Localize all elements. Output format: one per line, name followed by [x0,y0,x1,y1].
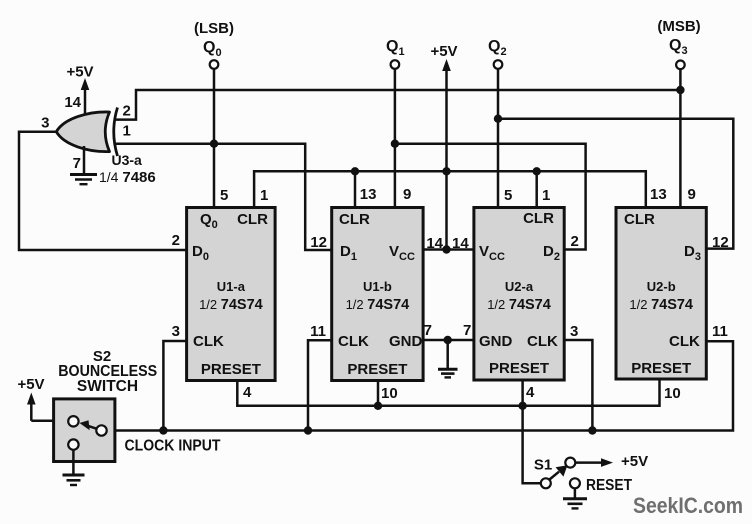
svg-text:13: 13 [650,186,667,203]
svg-text:GND: GND [389,333,423,350]
flip-flop U1-b box [332,208,423,381]
svg-text:RESET: RESET [586,477,632,494]
wire Q1 to D2 [395,144,586,250]
svg-text:CLR: CLR [624,211,655,228]
svg-text:PRESET: PRESET [201,361,261,378]
junction preset/pin4 U2-a [518,402,526,410]
wire XOR pin1 right through Q0 down to D1 [116,144,332,250]
wire RESET to ground [574,489,577,499]
svg-text:1: 1 [123,123,131,140]
wire S2 contact C to ground [72,450,75,475]
junction preset/pin10 U1-b [374,402,382,410]
svg-text:1: 1 [542,187,550,204]
svg-text:4: 4 [526,384,535,401]
svg-text:SWITCH: SWITCH [77,378,138,395]
switch S1 arm arrow [550,465,568,479]
svg-text:CLOCK INPUT: CLOCK INPUT [125,438,221,455]
terminal Q0 [210,60,219,69]
svg-text:5: 5 [220,187,228,204]
svg-text:U2-b: U2-b [647,279,676,294]
svg-text:S1: S1 [534,457,552,474]
svg-text:11: 11 [712,323,728,340]
svg-text:1/2 74S74: 1/2 74S74 [346,297,410,313]
svg-text:GND: GND [479,333,513,350]
svg-text:3: 3 [570,323,578,340]
wire GND drop [446,340,449,369]
wire PRESET pin10 U1-b [377,381,380,406]
svg-text:9: 9 [403,186,411,203]
switch S2 arm arrow [80,420,97,430]
svg-text:+5V: +5V [430,43,457,60]
junction +5V/CLR rail [442,167,450,175]
svg-text:PRESET: PRESET [347,361,407,378]
switch S2 box [54,399,115,462]
svg-text:7: 7 [463,322,471,339]
svg-text:1/2 74S74: 1/2 74S74 [199,297,263,313]
wire Q0 vertical [213,69,216,208]
junction clock/U1-a CLK [159,426,167,434]
wire Q1 vertical [394,69,397,208]
terminal Q3 [676,61,685,70]
junction GND node [444,336,452,344]
svg-text:(MSB): (MSB) [657,18,700,35]
wire clock line to U2-b CLK pin11 [107,341,733,430]
svg-text:U1-a: U1-a [217,279,246,294]
svg-text:1: 1 [260,187,268,204]
terminal Q1 [391,60,400,69]
wire Q2 vertical [497,69,500,208]
junction CLR13 U1-b [351,167,359,175]
svg-text:5: 5 [504,187,512,204]
wire CLR rail +5V [254,171,646,207]
ground under S2 [63,475,85,485]
flip-flop U1-a box [187,208,276,381]
svg-text:+5V: +5V [621,453,648,470]
svg-text:SeekIC.com: SeekIC.com [633,493,743,518]
junction Q0/pin1 [210,140,218,148]
junction Q3/top rail [676,86,684,94]
wire XOR pin3 output down to D0 [19,132,187,250]
ground between U1-b and U2-a [438,369,458,377]
junction clock/U2-a CLK [588,426,596,434]
svg-text:2: 2 [123,103,131,120]
wire CLR pin1 U2-a [535,171,538,207]
ground RESET [563,499,587,509]
wire VCC stubs pin14 [423,248,474,251]
svg-text:4: 4 [243,384,252,401]
wire U1-b CLK pin11 [308,340,332,430]
svg-text:7: 7 [424,322,432,339]
svg-text:1/2 74S74: 1/2 74S74 [487,297,551,313]
svg-text:3: 3 [172,323,180,340]
svg-text:10: 10 [664,385,681,402]
switch S2 contact C [68,439,78,449]
terminal Q2 [494,60,503,69]
svg-text:(LSB): (LSB) [194,20,234,37]
svg-text:CLK: CLK [338,333,369,350]
op-amp : XOR gate U3-a body [56,112,109,152]
svg-text:PRESET: PRESET [489,360,549,377]
svg-text:CLK: CLK [193,333,224,350]
svg-text:CLK: CLK [527,333,558,350]
svg-text:+5V: +5V [66,64,93,81]
wire PRESET rail pin4 U1-a to pin10 U2-b [237,379,659,406]
power +5V arrow at XOR pin 14 [81,78,90,120]
svg-text:1/4 7486: 1/4 7486 [99,169,156,186]
switch S1 contact upper [565,458,575,468]
switch S2 contact A [68,416,78,426]
svg-text:CLR: CLR [237,211,268,228]
svg-text:U1-b: U1-b [363,279,392,294]
switch S1 contact lower [541,478,551,488]
svg-text:CLR: CLR [523,210,554,227]
wire GND stubs pin7 [423,339,474,342]
power +5V arrow at S2 [27,393,69,421]
svg-text:2: 2 [571,233,579,250]
svg-text:3: 3 [41,115,49,132]
svg-text:9: 9 [688,186,696,203]
flip-flop U2-a box [474,208,564,381]
svg-text:U3-a: U3-a [112,152,143,168]
junction Q1/D2 [391,140,399,148]
ground under XOR [70,175,97,185]
wire CLR pin13 U1-b [354,171,357,207]
svg-text:1/2 74S74: 1/2 74S74 [629,297,693,313]
wire S1 to +5V arrow [576,458,614,467]
svg-text:PRESET: PRESET [631,360,691,377]
junction Q2/D3 [494,115,502,123]
junction clock/U1-b CLK [304,426,312,434]
svg-text:CLK: CLK [669,333,700,350]
wire PRESET pin4 U2-a down to S1 [523,380,541,483]
XOR gate input arc [114,108,118,157]
svg-text:U2-a: U2-a [505,279,534,294]
svg-text:12: 12 [310,234,327,251]
wire Q3 vertical [679,69,682,208]
junction CLR1 U2-a [533,167,541,175]
terminal RESET [570,478,580,488]
svg-text:7: 7 [73,155,81,172]
power +5V arrow top center [442,59,451,250]
wire Q2 to D3 [498,119,733,249]
svg-text:14: 14 [64,94,81,111]
svg-text:10: 10 [381,385,398,402]
svg-text:+5V: +5V [17,376,44,393]
svg-text:2: 2 [172,232,180,249]
junction +5V/VCC [442,245,450,253]
svg-text:13: 13 [360,186,377,203]
wire U1-a CLK pin3 [163,341,186,431]
svg-text:11: 11 [310,323,326,340]
svg-text:CLR: CLR [339,211,370,228]
wire U2-a CLK pin3 [564,340,592,431]
flip-flop U2-b box [616,208,706,380]
switch S2 contact B [96,425,106,435]
wire XOR pin7 to ground [83,146,86,175]
wire XOR pin2 up and right to Q3 (top rail) [116,90,680,120]
